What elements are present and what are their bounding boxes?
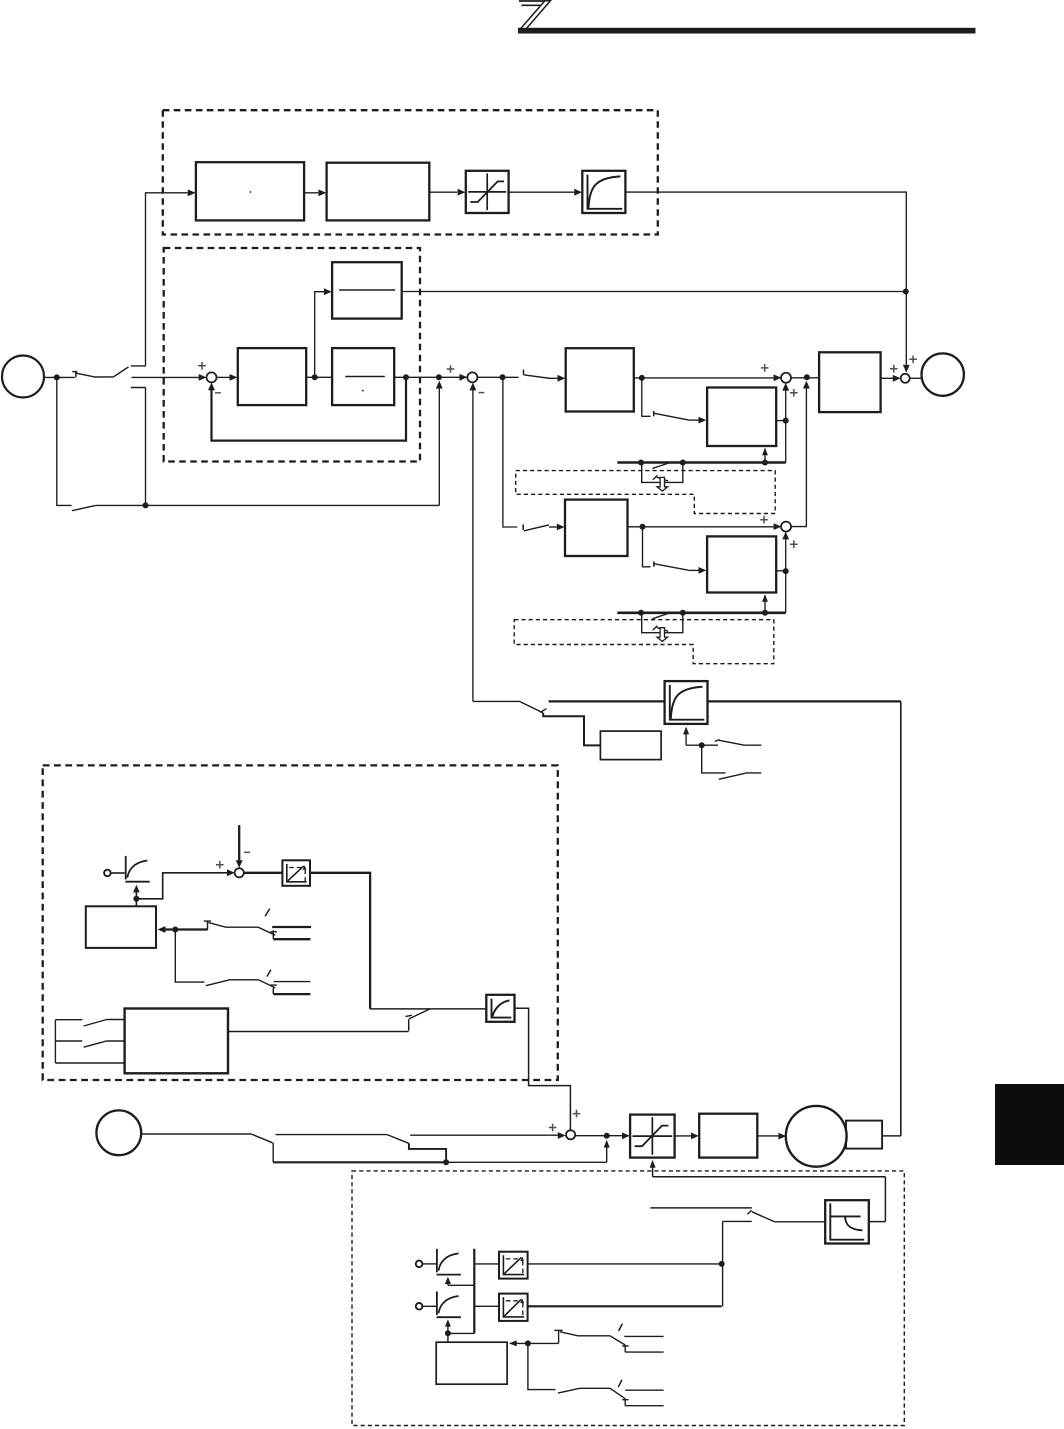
torque limit feed wire — [653, 1177, 886, 1222]
junction dot SC1 output — [639, 375, 645, 381]
block LS (limit select logic) — [436, 1342, 507, 1384]
adjust arrow into G3 — [445, 1319, 451, 1333]
scaling bus vertical — [448, 1249, 474, 1334]
junction dot before limiter — [604, 1133, 610, 1139]
plus sign below at S3 — [790, 389, 798, 397]
wire S6 to ramp icon R1 — [244, 872, 283, 874]
wire bus to ramp icon R3 — [474, 1263, 499, 1265]
wire TB1 output to vertical — [776, 420, 786, 422]
selector switch SW1 (command path select) — [72, 366, 145, 388]
dashed box: auto gain adjustment section — [43, 765, 558, 1080]
gain arc icon G3 — [437, 1291, 461, 1317]
block MB1 (model position control) — [238, 348, 306, 405]
wire T2 to gain icon G2 — [423, 1263, 437, 1265]
bypass loop under switch lower — [642, 613, 683, 633]
summing point S3 (torque sum upper) — [781, 373, 791, 383]
wire into feed forward block FF1 — [146, 189, 196, 366]
plus sign below at S4 — [790, 540, 798, 548]
block MB2 (model speed feed) — [332, 262, 402, 318]
speed feedback vertical into S2m — [470, 383, 477, 702]
wire IN1 to selector SW1 — [44, 376, 75, 378]
terminal circle T2 (analog limit 1) — [416, 1261, 423, 1268]
block SC1 (speed control upper) — [566, 348, 634, 411]
plus sign at model summing point — [198, 362, 206, 370]
limiter icon S1 — [466, 171, 509, 213]
dashed box: model section — [164, 248, 420, 462]
wire limit bus to TB2 bottom — [762, 594, 768, 613]
block CC (current control bottom) — [699, 1114, 757, 1158]
junction dot TB1 output — [783, 418, 789, 424]
wire block RT output to SW5 — [228, 1031, 409, 1033]
wire T3 to gain icon G3 — [423, 1305, 437, 1307]
block RT (real time auto tuning) — [125, 1009, 228, 1074]
junction dots on limit bus upper — [638, 460, 768, 466]
junction dot model output — [403, 374, 409, 380]
wire SW1 straight to summing point S1m — [132, 374, 207, 381]
block CB (current control) — [819, 352, 881, 412]
switch SW10 blade — [723, 1212, 775, 1222]
junction dot speed branch — [500, 374, 506, 380]
speed feedback wire to switch SW4 — [473, 700, 520, 702]
minus sign at model summing point — [215, 392, 221, 394]
wire dot to block RE top — [135, 899, 137, 907]
minus sign at S6 — [244, 851, 250, 853]
encoder box E1b — [846, 1121, 882, 1149]
summing point S6 (adjustment error) — [235, 868, 244, 877]
speed feedback wire through filter E2 — [549, 700, 665, 702]
dashed box: torque select lower — [514, 620, 774, 664]
dashed box: feed forward section — [163, 110, 658, 234]
block MB3 (model integrator) — [332, 348, 394, 405]
block TB1 (torque feed upper) — [707, 388, 776, 447]
wire S7 to limiter S2 — [575, 1132, 630, 1139]
wire S2m to switch SW2 — [477, 376, 518, 378]
adjust arrow into G2 — [445, 1277, 474, 1286]
model feedback wire — [208, 377, 406, 440]
chapter header rule — [518, 28, 976, 34]
wire S1m to model block MB1 — [216, 374, 237, 381]
internal limit stub wire — [650, 1208, 752, 1214]
thick limit bus upper — [617, 461, 785, 464]
wire S3 to current block CB — [791, 377, 819, 379]
wire TB2 output to vertical — [776, 570, 786, 572]
wire lower selector contact down — [145, 388, 147, 506]
summing point S7 (torque command sum) — [566, 1130, 575, 1139]
filter icon E2 (speed estimation filter) — [665, 681, 708, 724]
switch stub lower (estimation select) — [702, 745, 762, 779]
plus sign left at S5 — [890, 365, 898, 373]
junction dot limit line 1 — [719, 1261, 725, 1267]
manual set arrow upper — [657, 477, 668, 491]
switch stub upper (estimation select) — [702, 740, 762, 746]
gain arc icon G2 — [437, 1249, 461, 1275]
junction dot feed-forward/model — [903, 289, 909, 295]
junction dot bypass entry — [436, 374, 442, 380]
input circle IN1 — [2, 356, 44, 398]
vertical wire into summing point S4 — [782, 532, 789, 613]
summing point S5 (output sum) — [901, 374, 910, 383]
wire R4 to select switch — [528, 1305, 722, 1307]
wire R1 down to switch SW5 — [310, 873, 486, 1009]
changeover switch SW12 lower — [528, 1343, 664, 1405]
junction dot SC2 output — [640, 524, 646, 530]
ramp icon R4 (limit scale 2) — [499, 1294, 528, 1321]
torque limit wire into S2 bottom — [650, 1160, 656, 1177]
wire to summing point S6 — [136, 869, 234, 898]
wire up to model block MB2 — [315, 288, 332, 377]
thick limit bus lower — [617, 611, 785, 614]
wire FF1 to FF2 — [304, 189, 326, 196]
page tab marker — [995, 1084, 1064, 1165]
wire bus to ramp icon R4 — [474, 1305, 499, 1307]
wire CB to summing point S5 — [881, 375, 901, 382]
plus sign at S6 — [216, 861, 224, 869]
switch blade on limit bus upper — [652, 462, 671, 468]
junction dots on limit bus lower — [638, 610, 768, 616]
wire input bypass down-right — [57, 377, 443, 510]
ramp icon R1 (gain adjust) — [282, 860, 310, 886]
response filter icon R2 — [486, 995, 514, 1022]
wire T1 to gain icon — [111, 872, 125, 874]
plus sign left at S3 — [761, 364, 769, 372]
limiter icon S2 (torque limiter) — [630, 1115, 675, 1158]
wire R3 to select switch — [528, 1263, 722, 1265]
switch SW4 (feedback select) — [520, 702, 546, 713]
wire MB2 output to feed-forward junction — [402, 291, 906, 293]
wire SC2 to summing point S4 — [628, 523, 782, 530]
terminal circle T1 — [104, 870, 111, 877]
junction dot under G1 — [133, 896, 139, 902]
dashed box: torque limit section — [352, 1171, 904, 1426]
wire dot to block LS top — [447, 1333, 449, 1342]
reference wire into S6 top — [236, 825, 243, 868]
block TB2 (torque feed lower) — [707, 536, 776, 592]
gain arc icon G1 — [125, 856, 149, 882]
changeover switch SW11 upper — [528, 1324, 664, 1353]
junction dot estimator input — [172, 927, 178, 933]
encoder output wire — [882, 1135, 901, 1137]
junction dot estimator select — [699, 742, 705, 748]
block RE (real time estimator) — [86, 906, 156, 948]
input circle IN2 — [96, 1110, 141, 1155]
summing point S4 (torque sum lower) — [781, 522, 791, 532]
wire speed branch down to SW3 — [503, 377, 517, 527]
junction dot scaling bus — [445, 1330, 451, 1336]
wire into E2 bottom — [683, 727, 702, 746]
wire S4 output up to main line — [791, 381, 810, 527]
wire MB3 output to summing point S2m — [394, 374, 467, 381]
wire E1 to summing point S5 (feed forward path) — [625, 192, 909, 373]
switch SW2 (speed loop select) — [524, 370, 566, 382]
summing point S1m (model loop) — [207, 372, 217, 382]
junction dot main torque line — [804, 374, 810, 380]
estimation path wire — [543, 713, 600, 745]
wire E2 to encoder feedback — [708, 700, 901, 702]
wire SC1 to summing point S3 — [634, 374, 782, 381]
wire S1 to filter E1 — [509, 189, 582, 196]
lower bypass wire — [273, 1140, 610, 1163]
switch SW8 blade — [251, 1134, 273, 1162]
plus sign left at S7 — [549, 1124, 557, 1132]
wire R2 to bottom summing point — [515, 1008, 574, 1136]
wire branch to torque block TB2 — [643, 527, 707, 574]
changeover switch SW6 upper — [175, 909, 311, 940]
changeover switch SW7 lower — [175, 930, 310, 995]
wire into RE right edge — [158, 926, 176, 933]
switch SW9 blade — [387, 1135, 446, 1163]
junction dot bypass/selector — [143, 502, 149, 508]
motor circle M1 — [922, 353, 964, 395]
junction dot lower bypass — [443, 1159, 449, 1165]
chapter numeral 7 (outline) — [519, 1, 550, 31]
minus sign at S2m — [479, 392, 485, 394]
junction dot input branch — [54, 374, 60, 380]
wire into summing point S7 — [410, 1132, 565, 1139]
plus sign at S2m — [447, 365, 455, 373]
block FF2 (feed forward filter) — [327, 163, 430, 221]
wire IN2 to switch SW8 — [141, 1133, 251, 1135]
bypass loop under switch upper — [642, 463, 683, 483]
terminal circle T3 (analog limit 2) — [416, 1303, 423, 1310]
dashed box: torque select upper — [516, 471, 776, 514]
encoder feedback vertical — [900, 701, 902, 1136]
block SE (speed estimator) — [600, 731, 661, 760]
junction dot LS input — [525, 1340, 531, 1346]
wire SW10 to filter F1 — [775, 1221, 826, 1223]
wire FF2 to limiter S1 — [429, 189, 465, 196]
block SC2 (speed control lower) — [565, 500, 628, 556]
switch blade on limit bus lower — [652, 613, 671, 619]
wire into LS right edge — [509, 1340, 528, 1346]
filter icon E1 — [582, 171, 625, 213]
input bracket wires into RT — [55, 1020, 124, 1064]
wire S2 to block CC — [675, 1133, 699, 1140]
block FF1 (feed forward gain) — [196, 162, 304, 220]
wire between switches — [276, 1134, 388, 1136]
manual set arrow lower — [657, 628, 668, 642]
wire CC to motor M2 — [757, 1133, 786, 1140]
vertical wire into summing point S3 — [782, 383, 789, 463]
wire branch to torque block TB1 — [642, 378, 707, 424]
junction dot MB1 output — [312, 374, 318, 380]
plus sign left at S4 — [760, 516, 768, 524]
junction dot TB2 output — [783, 568, 789, 574]
switch SW3 (speed loop lower select) — [523, 524, 564, 531]
wire contact down to analog limits — [722, 1221, 724, 1306]
adjust arrow into G1 — [133, 885, 140, 899]
wire MB1 to MB3 — [306, 376, 332, 378]
motor circle M2 — [786, 1106, 847, 1167]
plus sign right at S5 — [909, 356, 917, 364]
wire S5 to motor M1 — [910, 377, 922, 379]
filter icon F1 (limit filter) — [825, 1200, 869, 1243]
ramp icon R3 (limit scale 1) — [499, 1252, 528, 1279]
summing point S2m (speed command sum) — [467, 372, 477, 382]
wire limit bus to TB1 bottom — [762, 448, 768, 463]
plus sign above at S7 — [573, 1110, 581, 1118]
switch SW5 (response select) — [406, 1009, 431, 1031]
